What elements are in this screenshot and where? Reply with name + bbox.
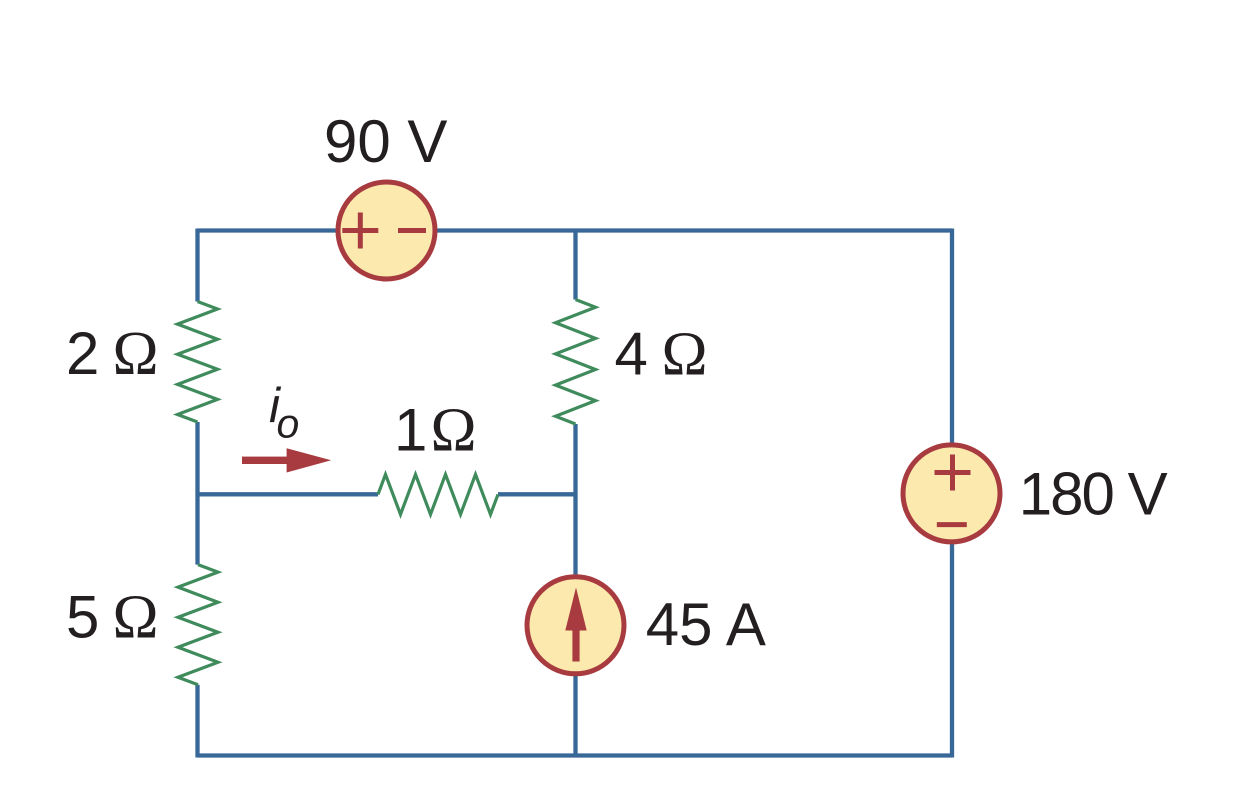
svg-text:o: o bbox=[277, 401, 300, 447]
svg-text:Ω: Ω bbox=[113, 320, 159, 388]
svg-text:90 V: 90 V bbox=[324, 108, 447, 175]
svg-text:Ω: Ω bbox=[113, 584, 159, 652]
svg-text:1: 1 bbox=[394, 396, 427, 463]
svg-text:5: 5 bbox=[66, 584, 99, 651]
svg-text:180 V: 180 V bbox=[1019, 461, 1168, 528]
svg-text:Ω: Ω bbox=[662, 320, 708, 388]
svg-text:45 A: 45 A bbox=[646, 591, 766, 658]
svg-text:2: 2 bbox=[66, 320, 99, 387]
svg-text:4: 4 bbox=[615, 320, 648, 387]
svg-text:Ω: Ω bbox=[431, 396, 477, 464]
